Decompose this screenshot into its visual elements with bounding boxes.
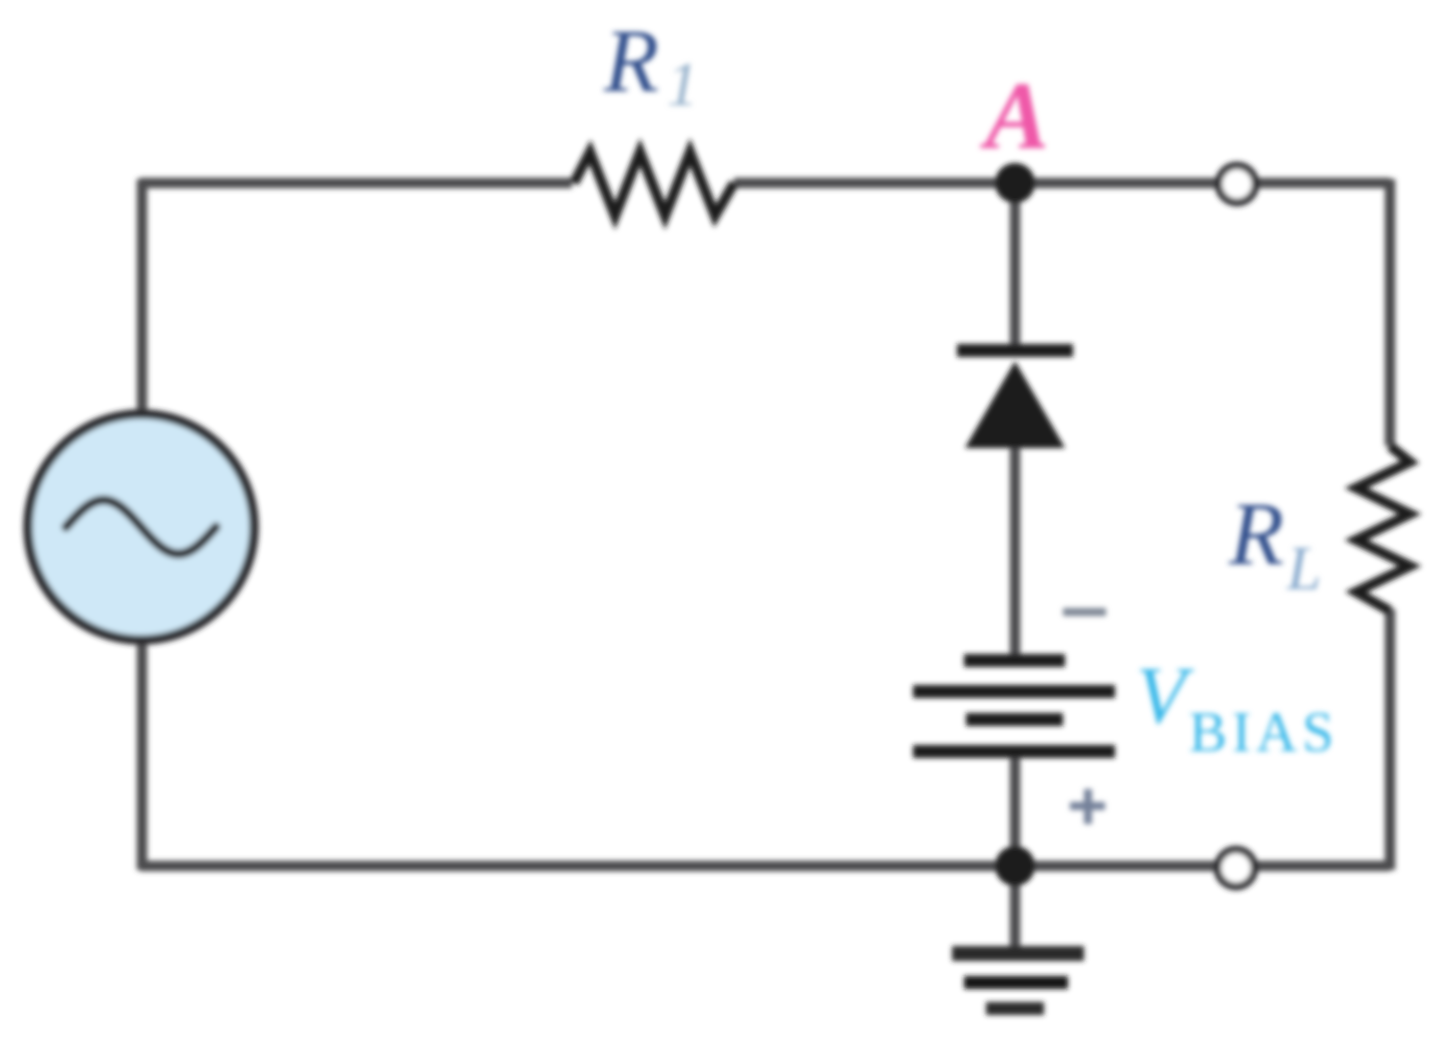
- wire bottom junction to ground: [1010, 866, 1021, 951]
- wire top-left horizontal (source to R1): [140, 178, 572, 189]
- resistor RL: [1356, 446, 1410, 611]
- battery VBIAS plate 2 (long): [913, 685, 1115, 698]
- svg-text:V: V: [1136, 650, 1194, 741]
- label VBIAS: [1136, 650, 1339, 764]
- svg-text:BIAS: BIAS: [1189, 701, 1339, 764]
- output terminal top: [1219, 166, 1256, 203]
- svg-text:R: R: [1228, 485, 1284, 584]
- wire top-right horizontal (R1 to node A to output terminal to right corner): [734, 178, 1390, 189]
- diode D1 (cathode bar): [957, 344, 1073, 357]
- wire bottom horizontal: [140, 861, 1390, 872]
- node A junction dot: [995, 163, 1035, 203]
- label RL: [1228, 485, 1321, 603]
- wire right vertical lower (RL bottom to corner): [1385, 609, 1396, 870]
- diode D1 (anode triangle): [965, 361, 1065, 448]
- output terminal bottom: [1218, 850, 1255, 887]
- svg-text:A: A: [980, 62, 1049, 169]
- wire diode anode to battery top plate: [1010, 444, 1021, 658]
- polarity minus sign (battery top): [1063, 608, 1106, 616]
- bottom junction dot: [995, 846, 1035, 886]
- svg-text:R: R: [603, 12, 659, 111]
- wire left vertical lower (source bottom to corner): [137, 639, 148, 870]
- svg-text:1: 1: [667, 51, 698, 119]
- ac source VS: [28, 414, 254, 640]
- label R1: [603, 12, 698, 119]
- battery VBIAS plate 4 (long): [913, 745, 1115, 758]
- ground: [952, 946, 1084, 1015]
- battery VBIAS plate 1 (short, negative top): [964, 654, 1065, 667]
- polarity plus sign (battery bottom): [1070, 789, 1105, 824]
- resistor R1: [574, 152, 734, 216]
- battery VBIAS plate 3 (short): [966, 713, 1063, 726]
- wire node A to diode cathode: [1010, 183, 1021, 348]
- wire battery bottom plate to bottom junction: [1010, 753, 1021, 866]
- wire right vertical upper (corner to RL top): [1385, 179, 1396, 446]
- label node A: [980, 62, 1049, 169]
- wire left vertical upper (corner to source top): [137, 179, 148, 416]
- svg-text:L: L: [1286, 535, 1321, 603]
